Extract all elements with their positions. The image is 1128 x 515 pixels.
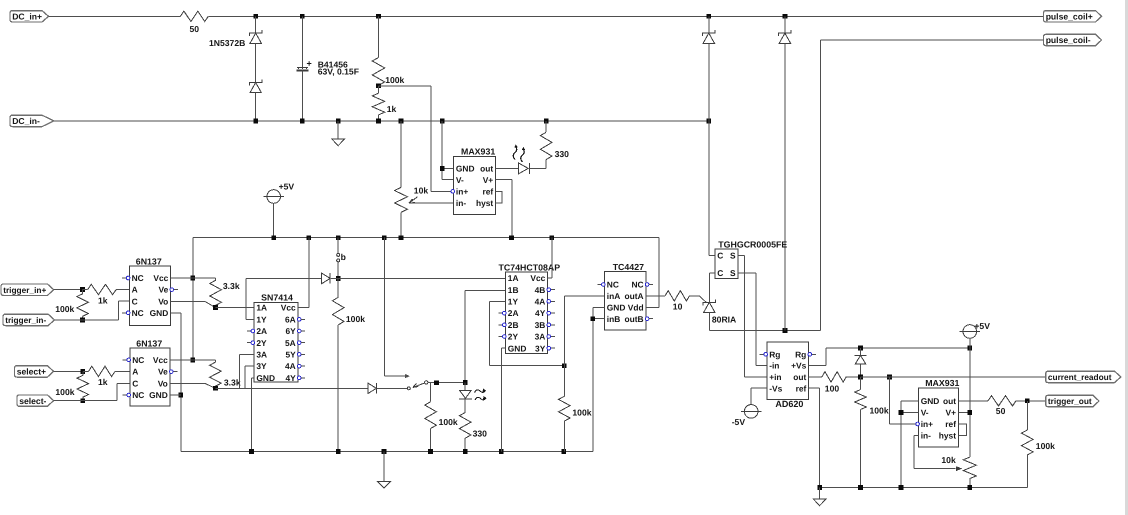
svg-text:+5V: +5V — [974, 321, 990, 331]
node/tag current_readout — [1046, 371, 1121, 382]
wire left ground rail — [181, 451, 593, 453]
wire diode to HCT08 1A — [331, 277, 506, 279]
wire MAX931-2 V+ — [958, 411, 970, 413]
svg-text:NC: NC — [607, 280, 619, 290]
wire +5V rail left leg — [192, 238, 194, 360]
resistor 50 (trigger_out series) — [988, 396, 1046, 416]
wire SN7414 1Y out — [246, 278, 322, 319]
node/tag select- — [17, 395, 54, 406]
comparator U9 MAX931 — [916, 378, 960, 447]
wire 3A net — [215, 354, 254, 388]
node/tag pulse_coil- — [1044, 34, 1102, 45]
node/tag select+ — [15, 366, 54, 377]
wire MAX931 out to LED — [496, 167, 519, 169]
resistor 1k (divider lower) — [372, 86, 396, 121]
svg-text:outA: outA — [625, 291, 644, 301]
svg-text:2Y: 2Y — [256, 338, 267, 348]
svg-text:5A: 5A — [285, 338, 296, 348]
svg-text:V-: V- — [921, 408, 929, 418]
svg-text:MAX931: MAX931 — [461, 147, 495, 157]
svg-text:4Y: 4Y — [285, 373, 296, 383]
svg-text:C: C — [717, 268, 723, 278]
junction left ground rail — [249, 449, 566, 454]
wire 6N137-2 GND stub — [170, 394, 181, 396]
wire zener to DC_in- — [255, 93, 257, 121]
resistor 100k (inA pulldown) — [559, 396, 592, 451]
junction top rail at zeners — [253, 14, 787, 19]
svg-text:63V, 0.15F: 63V, 0.15F — [318, 67, 359, 77]
svg-text:Vo: Vo — [158, 296, 168, 306]
svg-text:4A: 4A — [535, 297, 546, 307]
label B41456 63V 0.15F — [318, 60, 359, 77]
wire readout to MAX931 in+ — [890, 377, 919, 424]
svg-text:330: 330 — [555, 149, 570, 159]
svg-text:Vo: Vo — [158, 378, 168, 388]
wire 6N137-1 GND down — [171, 313, 181, 452]
junction inB/GND — [590, 316, 595, 321]
wire trigger_in+ to divider — [54, 289, 83, 291]
svg-text:2A: 2A — [256, 326, 267, 336]
svg-text:1A: 1A — [256, 303, 267, 313]
page edge — [1125, 0, 1128, 515]
wire HCT08 GND down — [501, 348, 505, 451]
svg-text:A: A — [132, 367, 138, 377]
wire AD620 -Vs to -5V — [751, 388, 767, 404]
wire right ground rail — [820, 487, 1028, 489]
label AD620 — [775, 399, 803, 409]
wire SSR S2 to AD620 -in — [738, 273, 767, 366]
svg-text:Rg: Rg — [769, 349, 780, 359]
junction +Vs rail — [858, 346, 972, 351]
junction right ground rail — [817, 485, 972, 490]
wire select- to 6N137 C — [54, 383, 130, 400]
node/tag pulse_coil+ — [1044, 11, 1102, 22]
svg-text:in-: in- — [921, 431, 931, 441]
svg-text:NC: NC — [132, 390, 144, 400]
junction pulse_coil- node — [783, 328, 788, 333]
wire top rail to pulse_coil+ — [208, 15, 1043, 17]
svg-text:3Y: 3Y — [256, 361, 267, 371]
svg-text:NC: NC — [132, 355, 144, 365]
svg-text:4Y: 4Y — [535, 308, 546, 318]
junction MAX931-2 V- — [899, 410, 904, 415]
resistor 1k (select series) — [83, 366, 130, 387]
wire trigger_in- to 6N137 C — [54, 301, 129, 320]
wire AD620 out — [809, 376, 822, 378]
svg-text:pulse_coil-: pulse_coil- — [1046, 35, 1091, 45]
svg-text:TC4427: TC4427 — [613, 262, 644, 272]
wire 6N137-1 Vcc to 3.3k — [171, 277, 216, 279]
zener D9 (clamp at SSR C2) — [779, 16, 791, 330]
svg-text:hyst: hyst — [476, 198, 493, 208]
wire TC4427 Vdd to +5V rail — [646, 238, 659, 308]
svg-text:out: out — [480, 164, 493, 174]
comparator U3 MAX931 — [451, 147, 496, 215]
wire pulse_coil- net — [820, 40, 1043, 330]
svg-text:100k: 100k — [346, 314, 365, 324]
svg-text:2Y: 2Y — [508, 332, 519, 342]
node/tag DC_in- — [10, 115, 54, 126]
label 1N5372B — [209, 38, 245, 48]
svg-text:SN7414: SN7414 — [261, 293, 293, 303]
svg-text:outB: outB — [625, 314, 644, 324]
ground (DC_in- rail) — [332, 121, 345, 146]
svg-text:1B: 1B — [508, 285, 519, 295]
svg-text:10k: 10k — [941, 455, 956, 465]
resistor 330 (LED limit 2) — [459, 399, 487, 452]
wire MAX931-2 out — [958, 400, 988, 402]
svg-text:current_readout: current_readout — [1048, 372, 1112, 382]
svg-text:b: b — [341, 252, 346, 262]
resistor 100k (readout load) — [855, 377, 889, 488]
svg-text:10: 10 — [673, 302, 683, 312]
node/tag trigger_out — [1046, 395, 1099, 406]
svg-text:inB: inB — [607, 314, 621, 324]
svg-text:-5V: -5V — [732, 417, 746, 427]
junction trigger_out node — [1025, 398, 1030, 403]
svg-text:3B: 3B — [535, 320, 546, 330]
svg-text:C: C — [717, 251, 723, 261]
power +5V (right) — [960, 321, 991, 348]
svg-text:V+: V+ — [483, 175, 494, 185]
svg-text:100k: 100k — [870, 405, 889, 415]
svg-text:ref: ref — [482, 187, 493, 197]
svg-text:3.3k: 3.3k — [223, 281, 240, 291]
wire switch to 1B node — [428, 382, 465, 384]
resistor 100k (1Y pulldown) — [332, 278, 365, 451]
node/tag DC_in+ — [10, 11, 49, 22]
junction MAX931 GND — [440, 166, 445, 171]
wire TC4427 GND down — [593, 307, 605, 451]
svg-text:DC_in-: DC_in- — [12, 116, 40, 126]
svg-text:100k: 100k — [1036, 441, 1055, 451]
junction select divider top — [80, 369, 85, 374]
switch a actuator from +5V — [384, 238, 410, 379]
junction MAX931-2 V+ — [967, 410, 972, 415]
resistor 100k (divider upper) — [372, 16, 404, 85]
svg-text:100k: 100k — [572, 408, 591, 418]
diode D10 (readout clamp) — [855, 348, 867, 377]
wire MAX931 V+ to +5V rail — [496, 179, 513, 237]
svg-text:330: 330 — [473, 428, 488, 438]
svg-text:S: S — [730, 251, 736, 261]
AND gate U5 TC74HCT08AP — [498, 262, 560, 353]
capacitor C1 B41456 0.15F — [297, 16, 312, 121]
junction switch-b node — [336, 276, 341, 281]
svg-text:ref: ref — [796, 383, 807, 393]
junction switch/100k — [434, 380, 439, 385]
wire MAX931 ref-hyst loop — [496, 191, 503, 203]
zener D7 80RIA — [703, 299, 736, 330]
svg-text:5Y: 5Y — [285, 350, 296, 360]
wire SN7414 GND down — [251, 378, 254, 452]
node/tag trigger_in+ — [1, 284, 54, 295]
wire SSR S1 to AD620 +in — [738, 255, 767, 377]
svg-text:1k: 1k — [98, 377, 108, 387]
svg-text:GND: GND — [508, 343, 527, 353]
svg-text:1Y: 1Y — [508, 297, 519, 307]
potentiometer 10k (hysteresis) — [941, 455, 976, 488]
wire MAX931-2 ref-hyst loop — [958, 424, 966, 436]
svg-text:Vcc: Vcc — [281, 303, 296, 313]
svg-text:out: out — [943, 396, 956, 406]
ground (analog rail) — [813, 488, 826, 506]
optocoupler U1 6N137 (trigger) — [122, 256, 178, 325]
svg-text:ref: ref — [945, 419, 956, 429]
LED D3 (comparator indicator) — [513, 144, 529, 174]
svg-text:1N5372B: 1N5372B — [209, 38, 245, 48]
wire SSR C2 to 80RIA — [709, 273, 715, 302]
zener D2 1N5372B (lower) — [250, 80, 262, 93]
svg-text:+Vs: +Vs — [791, 361, 806, 371]
svg-text:trigger_in-: trigger_in- — [5, 315, 46, 325]
junction trigger divider top — [80, 287, 85, 292]
junction trigger divider bottom — [80, 318, 85, 323]
wire TC4427 outA — [646, 295, 665, 297]
junction left leg at 6N137 Vcc — [190, 276, 195, 363]
wire SN7414 3Y out — [245, 366, 368, 388]
wire AD620 +Vs to +5V — [809, 348, 970, 366]
svg-text:3A: 3A — [535, 332, 546, 342]
svg-text:+5V: +5V — [279, 182, 295, 192]
svg-text:out: out — [793, 372, 806, 382]
svg-text:pulse_coil+: pulse_coil+ — [1046, 12, 1093, 22]
resistor 3.3k (Vo pullup 1) — [210, 278, 240, 308]
wire current_readout — [861, 376, 1046, 378]
svg-text:+in: +in — [769, 372, 781, 382]
svg-text:100k: 100k — [55, 387, 74, 397]
potentiometer 10k (threshold) — [395, 121, 429, 238]
switch b (test pushbutton) — [337, 238, 346, 279]
resistor 50 (input series) — [180, 11, 208, 34]
junction divider tap — [376, 83, 381, 88]
SSR U7 TGHGCR0005FE — [715, 239, 787, 278]
svg-text:GND: GND — [456, 164, 475, 174]
junction readout node — [858, 375, 892, 380]
pot 10k wiper to MAX931 in- — [409, 197, 454, 204]
junction Vo1/3.3k — [213, 305, 218, 310]
svg-text:100k: 100k — [385, 75, 404, 85]
wire 6N137-2 Vcc to 3.3k — [170, 359, 215, 361]
svg-text:1k: 1k — [98, 295, 108, 305]
svg-text:V-: V- — [456, 175, 464, 185]
svg-text:V+: V+ — [946, 408, 957, 418]
svg-text:Ve: Ve — [158, 367, 168, 377]
wire HCT08 1B net — [465, 290, 505, 382]
svg-text:GND: GND — [150, 308, 169, 318]
svg-text:select+: select+ — [17, 367, 46, 377]
svg-text:4B: 4B — [535, 285, 546, 295]
node/tag trigger_in- — [3, 314, 54, 325]
optocoupler U2 6N137 (select) — [123, 338, 178, 405]
LED D6 (trigger indicator) — [459, 383, 487, 401]
svg-text:6A: 6A — [285, 314, 296, 324]
svg-text:GND: GND — [607, 302, 626, 312]
svg-text:80RIA: 80RIA — [712, 315, 736, 325]
wire DC_in+ to R50 — [49, 15, 181, 17]
svg-text:A: A — [132, 285, 138, 295]
resistor 100k (select shunt) — [55, 371, 88, 400]
svg-text:NC: NC — [132, 273, 144, 283]
wire SN7414 Vcc to +5V rail — [298, 238, 309, 308]
resistor 100k (trigger_out load) — [1022, 401, 1056, 488]
wire AD620 ref down — [809, 388, 820, 487]
svg-text:MAX931: MAX931 — [925, 378, 959, 388]
svg-text:C: C — [132, 296, 138, 306]
wire HCT08 1Y to TC4427 inA — [490, 301, 565, 365]
svg-text:6N137: 6N137 — [136, 338, 162, 348]
svg-text:10k: 10k — [414, 185, 429, 195]
svg-text:3.3k: 3.3k — [224, 377, 241, 387]
svg-text:GND: GND — [256, 373, 275, 383]
svg-text:C: C — [132, 378, 138, 388]
svg-text:Vcc: Vcc — [153, 273, 168, 283]
wire +5V to V+ and pot — [969, 348, 971, 457]
resistor 100 (output series) — [822, 372, 861, 394]
svg-text:100k: 100k — [439, 417, 458, 427]
wire 6N137-1 Vo — [171, 301, 216, 307]
resistor 100k (switch pulldown) — [425, 383, 458, 452]
svg-text:TGHGCR0005FE: TGHGCR0005FE — [718, 239, 787, 249]
junction 1Y/inA node — [562, 363, 567, 368]
resistor 1k (trigger series) — [83, 284, 130, 305]
svg-text:-in: -in — [769, 361, 779, 371]
diode D4 (1Y series) — [322, 273, 331, 284]
wire TC4427 inB — [593, 318, 605, 320]
svg-text:3Y: 3Y — [535, 343, 546, 353]
svg-text:NC: NC — [132, 308, 144, 318]
svg-text:-Vs: -Vs — [769, 383, 782, 393]
zener D1 1N5372B (upper) — [250, 16, 262, 43]
wire DC_in- rail — [54, 120, 709, 122]
svg-text:Rg: Rg — [795, 349, 806, 359]
svg-text:2B: 2B — [508, 320, 519, 330]
svg-text:Vcc: Vcc — [530, 273, 545, 283]
zener D8 (clamp at SSR C) — [703, 16, 715, 255]
svg-text:6Y: 6Y — [285, 326, 296, 336]
wire 80RIA node to pulse_coil- — [709, 329, 820, 331]
wire 6N137-2 Vo — [170, 383, 215, 388]
svg-text:GND: GND — [921, 396, 940, 406]
resistor 10 (gate series) — [665, 291, 706, 312]
wire divider tap to MAX931 in+ — [379, 86, 454, 192]
junction Vo2/3.3k — [213, 386, 218, 391]
wire HCT08 Vcc to +5V rail — [548, 238, 552, 278]
in-amp U8 AD620 — [760, 342, 816, 399]
junction 1B/LED node — [463, 380, 468, 385]
svg-text:DC_in+: DC_in+ — [12, 12, 42, 22]
svg-text:select-: select- — [19, 396, 46, 406]
svg-text:4A: 4A — [285, 361, 296, 371]
resistor 3.3k (Vo pullup 2) — [210, 360, 241, 388]
svg-text:+: + — [307, 59, 312, 69]
pot 10k-2 wiper from in- — [914, 436, 962, 471]
svg-text:2A: 2A — [508, 308, 519, 318]
svg-text:100: 100 — [825, 383, 840, 393]
svg-text:1k: 1k — [387, 104, 397, 114]
switch a (trigger enable) — [377, 381, 428, 390]
driver U6 TC4427 — [597, 262, 653, 330]
resistor 330 (LED limit) — [540, 121, 569, 160]
svg-text:Vcc: Vcc — [153, 355, 168, 365]
wire TC4427 inA — [564, 296, 604, 397]
svg-text:1A: 1A — [508, 273, 519, 283]
svg-text:NC: NC — [631, 280, 643, 290]
power -5V — [732, 405, 762, 427]
ground (logic rail) — [377, 452, 390, 489]
svg-text:AD620: AD620 — [775, 399, 803, 409]
wire DC_in- to MAX931 GND/V- — [442, 121, 453, 179]
svg-text:in-: in- — [456, 198, 466, 208]
wire +5V rail — [193, 237, 659, 239]
junction select divider bottom — [80, 398, 85, 403]
svg-text:GND: GND — [149, 390, 168, 400]
svg-text:100k: 100k — [55, 304, 74, 314]
wire between zeners — [255, 43, 257, 82]
svg-text:3A: 3A — [256, 350, 267, 360]
svg-text:trigger_out: trigger_out — [1048, 396, 1092, 406]
junction 6N137 GND shared — [178, 393, 183, 398]
wire MAX931-2 GND/V- down — [901, 401, 918, 488]
svg-text:1Y: 1Y — [256, 314, 267, 324]
resistor 100k (trigger shunt) — [55, 290, 88, 320]
svg-text:50: 50 — [996, 406, 1006, 416]
svg-text:50: 50 — [190, 24, 200, 34]
diode D5 (3Y series) — [368, 383, 377, 394]
svg-text:Ve: Ve — [159, 285, 169, 295]
svg-text:inA: inA — [607, 291, 621, 301]
svg-text:Vdd: Vdd — [628, 302, 644, 312]
junction DC_in- rail — [253, 119, 711, 124]
svg-text:in+: in+ — [456, 187, 468, 197]
wire Vo1 to SN7414 1A — [216, 307, 255, 309]
junction +5V rail — [271, 235, 554, 240]
wire LED to R330 — [529, 160, 546, 169]
svg-text:trigger_in+: trigger_in+ — [3, 285, 46, 295]
svg-text:in+: in+ — [921, 419, 933, 429]
svg-text:S: S — [730, 268, 736, 278]
power +5V (left) — [264, 182, 295, 238]
wire select+ to divider — [54, 370, 83, 372]
inverter U4 SN7414 — [247, 293, 305, 383]
svg-text:hyst: hyst — [939, 431, 956, 441]
svg-text:TC74HCT08AP: TC74HCT08AP — [499, 262, 561, 272]
svg-text:6N137: 6N137 — [136, 256, 162, 266]
